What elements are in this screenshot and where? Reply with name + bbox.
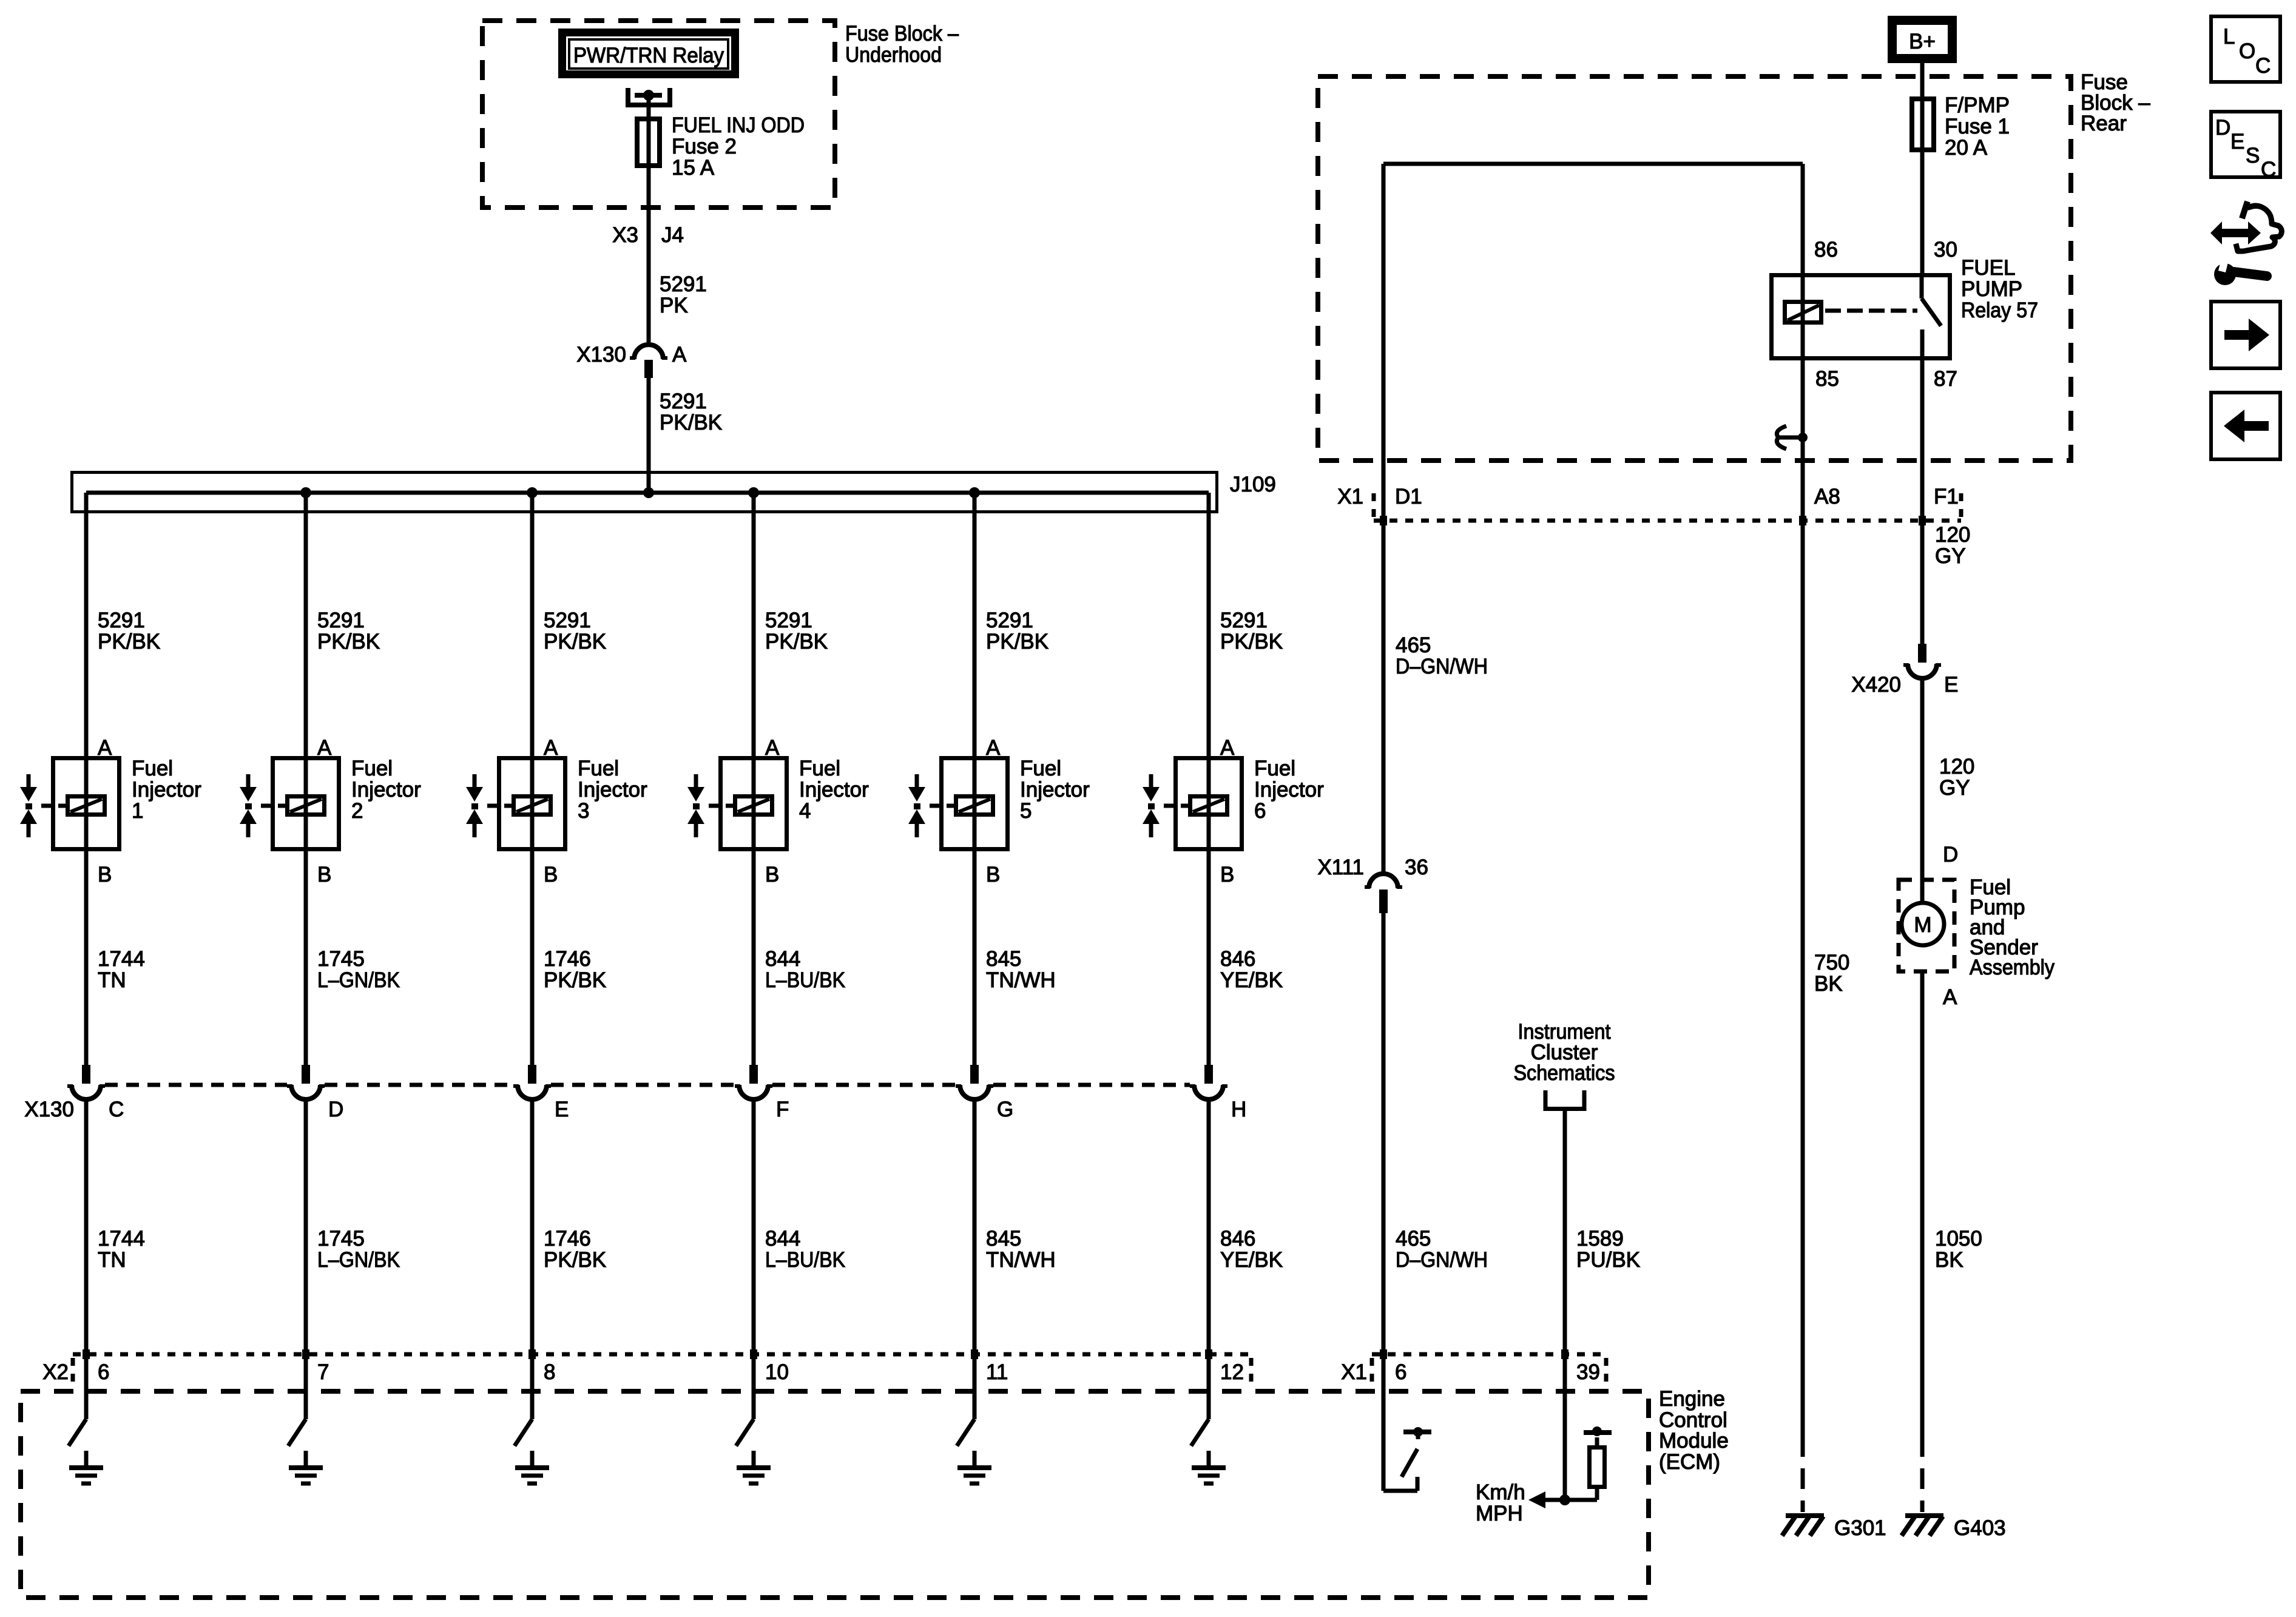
ECM driver switch pin 7 [288,1419,306,1446]
label connector pin H [1231,1098,1246,1121]
label wire 846 YE/BK upper [1220,947,1283,992]
label ECM pin 12 [1220,1360,1244,1384]
svg-text:12: 12 [1220,1360,1244,1384]
svg-text:A8: A8 [1814,485,1840,508]
wire 5291 PK/BK branch to injector 1 [84,493,89,1065]
wire 120 GY to fuel pump pin D [1920,678,1925,903]
splice pack J109 bus [72,473,1217,512]
label connector X130 cavity A [576,343,687,366]
label pin A injector 3 [544,736,558,760]
svg-text:PK/BK: PK/BK [317,630,380,653]
svg-text:Underhood: Underhood [845,43,942,67]
label Fuel Injector 4 [799,757,869,823]
svg-text:1746: 1746 [544,1227,591,1251]
label wire 5291 PK/BK branch 3 [544,609,606,653]
svg-text:846: 846 [1220,947,1255,971]
engine control module enclosure [21,1391,1649,1598]
icon hand with wrench and double arrow [2210,201,2281,285]
relay 57 coil [1785,302,1822,323]
svg-text:5291: 5291 [317,609,365,632]
svg-text:C: C [2261,158,2276,181]
svg-text:Fuel: Fuel [1254,757,1295,780]
svg-text:PK/BK: PK/BK [98,630,160,653]
label connector X2 [42,1360,69,1384]
label wire 1744 TN upper [98,947,145,992]
svg-text:120: 120 [1935,523,1970,547]
svg-text:PK/BK: PK/BK [986,630,1048,653]
label wire 845 TN/WH upper [986,947,1056,992]
svg-text:H: H [1231,1098,1246,1121]
svg-text:J109: J109 [1230,473,1276,496]
svg-text:1050: 1050 [1935,1227,1982,1251]
label pin A injector 4 [765,736,780,760]
fuse block underhood enclosure [482,21,835,208]
label Fuel Pump and Sender Assembly [1970,876,2055,979]
svg-text:5291: 5291 [765,609,812,632]
svg-text:Fuse Block –: Fuse Block – [845,22,959,46]
svg-text:TN/WH: TN/WH [986,968,1056,992]
svg-text:F: F [776,1098,789,1121]
ECM driver switch pin 12 [1191,1419,1209,1446]
wire 1589 PU/BK from instrument cluster to pin 39 [1561,1111,1568,1500]
svg-text:PK/BK: PK/BK [1220,630,1283,653]
fuel injector 2 [240,758,339,849]
label pin B injector 3 [544,863,558,886]
relay 57 switch contact [1922,273,1941,360]
wire 5291 PK/BK branch to injector 4 [752,493,756,1065]
svg-text:J4: J4 [661,223,684,247]
label wire 5291 PK/BK branch 6 [1220,609,1283,653]
svg-text:PK: PK [660,294,688,317]
svg-text:C: C [109,1098,124,1121]
label wire 1745 L&#8211;GN/BK upper [317,947,400,992]
svg-text:X1: X1 [1341,1360,1367,1384]
svg-text:30: 30 [1934,238,1957,262]
label pin B injector 2 [317,863,331,886]
wire 465 D-GN/WH from ECM up and over to relay 57 pin 86 [1380,164,1803,874]
svg-text:6: 6 [98,1360,109,1384]
label ECM pin 11 [986,1360,1008,1384]
svg-text:FUEL: FUEL [1961,256,2015,280]
relay 57 actuation dashed link [1825,309,1917,313]
label Fuel Injector 1 [132,757,201,823]
svg-text:36: 36 [1405,856,1428,879]
svg-text:(ECM): (ECM) [1659,1450,1720,1474]
svg-text:F/PMP: F/PMP [1945,93,2010,117]
junction dots on J109 [300,487,980,498]
svg-text:465: 465 [1396,633,1431,657]
label Km/h MPH [1476,1480,1525,1525]
svg-text:FUEL INJ ODD: FUEL INJ ODD [672,113,805,137]
label connector X1 at ECM [1341,1360,1367,1384]
wire 5291 PK/BK to splice J109 [647,378,651,493]
svg-text:L–GN/BK: L–GN/BK [317,968,400,992]
connector X130 pin A [630,345,667,378]
fuel injector 5 [908,758,1008,849]
label fuse block pins D1 A8 F1 [1395,485,1959,508]
svg-text:1745: 1745 [317,947,365,971]
label wire 465 D-GN/WH lower [1396,1227,1488,1272]
connector X1 dotted row at ECM [1372,1354,1606,1392]
svg-text:Fuel: Fuel [132,757,173,780]
connector X130 pin C [67,1065,105,1099]
fuel injector 6 [1143,758,1242,849]
connector X130 harness dashed line [105,1083,1190,1087]
svg-text:YE/BK: YE/BK [1220,968,1283,992]
label wire 846 YE/BK lower [1220,1227,1283,1272]
label fuse 2 [672,113,805,180]
label pin B injector 6 [1220,863,1234,886]
ground (ECM internal) for injector 5 [957,1451,991,1484]
svg-text:7: 7 [317,1360,329,1384]
svg-text:5291: 5291 [660,272,707,296]
svg-text:G403: G403 [1954,1516,2006,1540]
label ECM pin 39 (X1) [1576,1360,1600,1384]
svg-text:Schematics: Schematics [1514,1061,1615,1085]
label wire 5291 PK/BK branch 1 [98,609,160,653]
label ECM pin 6 (X1) [1395,1360,1406,1384]
svg-text:D–GN/WH: D–GN/WH [1396,655,1488,678]
fuse FUEL INJ ODD Fuse 2 15 A [637,119,660,166]
wire B+ to fuse 1 to relay 57 pin 30 [1920,63,1925,273]
svg-text:B: B [98,863,112,886]
svg-text:X130: X130 [24,1098,74,1121]
ECM input switch on pin X1-6 [1383,1427,1431,1491]
wire 1745 L&#8211;GN/BK to ECM pin 7 [302,1099,309,1419]
label connector pin E [555,1098,569,1121]
svg-text:BK: BK [1935,1248,1963,1272]
connector X2 dotted row at ECM [73,1354,1251,1388]
relay PWR/TRN (shown in fuse block) [562,33,735,75]
svg-text:L–BU/BK: L–BU/BK [765,1248,845,1272]
label ECM pin 6 [98,1360,109,1384]
connector X130 pin G [956,1065,993,1099]
svg-text:X130: X130 [576,343,626,366]
label fuse 1 [1945,93,2010,160]
svg-text:20 A: 20 A [1945,136,1988,160]
svg-text:TN/WH: TN/WH [986,1248,1056,1272]
connector X130 pin E [513,1065,551,1099]
label fuel pump pin A [1943,985,1957,1009]
svg-text:B: B [1220,863,1234,886]
label wire 1050 BK [1935,1227,1982,1272]
svg-text:Km/h: Km/h [1476,1480,1525,1504]
svg-text:YE/BK: YE/BK [1220,1248,1283,1272]
label connector pin D [328,1098,343,1121]
label Fuel Injector 5 [1020,757,1090,823]
svg-text:E: E [555,1098,569,1121]
svg-text:PWR/TRN Relay: PWR/TRN Relay [573,44,724,67]
connector X1 dotted row at fuse block rear [1374,487,1961,521]
label connector X1 at fuse block [1337,485,1363,508]
wire 750 BK dashed lead to G301 [1801,1436,1805,1512]
label wire 1589 PU/BK [1576,1227,1640,1272]
wire 845 TN/WH to ECM pin 11 [971,1099,978,1419]
svg-text:E: E [2230,130,2244,154]
label wire 844 L&#8211;BU/BK upper [765,947,845,992]
svg-text:TN: TN [98,1248,126,1272]
svg-text:E: E [1944,673,1958,697]
svg-text:GY: GY [1939,776,1970,800]
svg-text:5: 5 [1020,799,1032,823]
svg-text:L–GN/BK: L–GN/BK [317,1248,400,1272]
label connector X111 cavity 36 [1317,856,1428,879]
svg-text:39: 39 [1576,1360,1600,1384]
ground (ECM internal) for injector 6 [1192,1451,1226,1484]
label Engine Control Module (ECM) [1659,1387,1729,1474]
svg-text:2: 2 [351,799,363,823]
ground (ECM internal) for injector 3 [515,1451,549,1484]
svg-text:8: 8 [544,1360,555,1384]
label relay pins 86 30 85 87 [1814,238,1957,391]
svg-text:845: 845 [986,1227,1021,1251]
svg-text:Injector: Injector [132,778,201,802]
svg-text:844: 844 [765,947,800,971]
ECM driver switch pin 6 [69,1419,86,1446]
ECM speed signal node on pin 39 [1545,1494,1597,1505]
svg-text:X420: X420 [1851,673,1901,697]
svg-text:Injector: Injector [1020,778,1090,802]
svg-text:X1: X1 [1337,485,1363,508]
label pin B injector 5 [986,863,1000,886]
svg-text:PK/BK: PK/BK [765,630,828,653]
label G403 [1954,1516,2006,1540]
svg-text:Fuel: Fuel [799,757,840,780]
svg-text:1589: 1589 [1576,1227,1624,1251]
svg-text:D: D [328,1098,343,1121]
fuel injector 4 [687,758,787,849]
svg-text:120: 120 [1939,755,1974,778]
svg-text:PK/BK: PK/BK [544,968,606,992]
svg-text:Fuse 1: Fuse 1 [1945,115,2010,138]
icon button back arrow [2211,393,2280,459]
label pin A injector 5 [986,736,1001,760]
connector X130 pin H [1190,1065,1227,1099]
case ground tab on pin 85 wire [1777,426,1808,449]
svg-text:B: B [765,863,779,886]
label connector X130 [24,1098,74,1121]
ground G403 [1902,1516,1943,1536]
svg-text:PUMP: PUMP [1961,277,2022,301]
label wire 120 GY lower [1939,755,1974,800]
connector X130 pin D [287,1065,325,1099]
label connector X420 cavity E [1851,673,1958,697]
svg-text:GY: GY [1935,544,1966,568]
svg-text:6: 6 [1395,1360,1406,1384]
svg-text:O: O [2239,39,2255,63]
label Instrument Cluster Schematics [1514,1020,1615,1085]
label pin A injector 6 [1220,736,1235,760]
label X3 J4 fuse block terminals [612,223,684,247]
label ECM pin 7 [317,1360,329,1384]
svg-text:X2: X2 [42,1360,69,1384]
svg-text:5291: 5291 [98,609,145,632]
svg-text:1745: 1745 [317,1227,365,1251]
label wire 120 GY upper [1935,523,1970,568]
svg-text:Fuel: Fuel [578,757,619,780]
label wire 1746 PK/BK upper [544,947,606,992]
svg-text:5291: 5291 [986,609,1033,632]
wire 1744 TN to ECM pin 6 [83,1099,90,1419]
svg-text:1746: 1746 [544,947,591,971]
svg-text:X3: X3 [612,223,638,247]
label wire 844 L&#8211;BU/BK lower [765,1227,845,1272]
label wire 845 TN/WH lower [986,1227,1056,1272]
svg-text:845: 845 [986,947,1021,971]
wire 1746 PK/BK to ECM pin 8 [528,1099,536,1419]
label G301 [1834,1516,1886,1540]
resistor (ECM pull-up) at pin 39 [1584,1426,1612,1500]
label fuel pump pin D [1943,843,1958,866]
svg-text:B+: B+ [1909,30,1936,53]
svg-text:D: D [1943,843,1958,866]
battery feed B+ [1893,21,1953,59]
svg-text:87: 87 [1934,367,1957,391]
svg-text:TN: TN [98,968,126,992]
wire 846 YE/BK to ECM pin 12 [1205,1099,1212,1419]
label connector pin C [109,1098,124,1121]
label wire 5291 PK/BK branch 5 [986,609,1048,653]
label pin A injector 2 [317,736,332,760]
label FUEL PUMP Relay 57 [1961,256,2038,322]
label wire 5291 PK [660,272,707,317]
svg-text:3: 3 [578,799,589,823]
wire 465 D-GN/WH to ECM pin X1-6 [1380,913,1387,1491]
fuel pump and sender assembly enclosure [1899,880,1954,971]
label Fuel Injector 6 [1254,757,1324,823]
label wire 5291 PK/BK [660,390,722,434]
svg-text:846: 846 [1220,1227,1255,1251]
svg-text:465: 465 [1396,1227,1431,1251]
ground (ECM internal) for injector 4 [737,1451,771,1484]
label wire 750 BK [1814,951,1849,996]
label pin B injector 1 [98,863,112,886]
connector X130 pin F [735,1065,772,1099]
svg-text:Assembly: Assembly [1970,956,2055,979]
svg-text:A: A [1943,985,1957,1009]
svg-text:L–BU/BK: L–BU/BK [765,968,845,992]
svg-text:C: C [2255,54,2271,78]
svg-text:D: D [2215,116,2230,140]
svg-text:L: L [2223,25,2235,49]
wire relay 57 pin 87 (120 GY) down to fuel pump [1919,329,1926,644]
svg-text:Fuse 2: Fuse 2 [672,135,737,158]
ECM driver switch pin 8 [515,1419,532,1446]
svg-text:11: 11 [986,1360,1008,1384]
ground (ECM internal) for injector 2 [289,1451,323,1484]
svg-text:4: 4 [799,799,811,823]
svg-text:1744: 1744 [98,1227,145,1251]
svg-text:PU/BK: PU/BK [1576,1248,1640,1272]
svg-text:Injector: Injector [1254,778,1324,802]
svg-text:A: A [672,343,687,366]
label wire 5291 PK/BK branch 4 [765,609,828,653]
label connector pin G [997,1098,1013,1121]
label wire 1745 L&#8211;GN/BK lower [317,1227,400,1272]
label Fuse Block - Rear [2081,70,2150,135]
icon button LOC [2211,16,2280,82]
svg-text:750: 750 [1814,951,1849,974]
ground (ECM internal) for injector 1 [69,1451,103,1484]
wire 5291 PK/BK branch to injector 5 [973,493,977,1065]
connector X420 pin E [1903,644,1941,678]
label wire 1746 PK/BK lower [544,1227,606,1272]
label pin A injector 1 [98,736,112,760]
arrow to Km/h MPH output [1528,1491,1545,1508]
svg-text:Injector: Injector [351,778,421,802]
wire 5291 PK/BK branch to injector 2 [304,493,308,1065]
svg-text:85: 85 [1815,367,1839,391]
wire relay coil pin 86 to pin 85 and down to G301 [1799,164,1806,1436]
svg-text:6: 6 [1254,799,1266,823]
relay contact bracket feed [628,88,670,105]
svg-text:Injector: Injector [799,778,869,802]
svg-text:F1: F1 [1934,485,1959,508]
label Fuse Block - Underhood [845,22,959,67]
svg-text:Injector: Injector [578,778,647,802]
label ECM pin 10 [765,1360,789,1384]
svg-text:M: M [1914,913,1931,937]
label ECM pin 8 [544,1360,555,1384]
svg-text:PK/BK: PK/BK [660,411,722,434]
svg-text:S: S [2246,144,2260,167]
fuse F/PMP Fuse 1 20 A [1912,99,1934,150]
wire 844 L&#8211;BU/BK to ECM pin 10 [750,1099,757,1419]
svg-text:PK/BK: PK/BK [544,1248,606,1272]
instrument cluster off-page bracket [1545,1090,1584,1109]
svg-text:Module: Module [1659,1429,1729,1453]
icon button DESC [2211,112,2280,181]
svg-text:Rear: Rear [2081,112,2127,135]
svg-text:D–GN/WH: D–GN/WH [1396,1248,1488,1272]
wire from PWR/TRN relay through fuse 2 to connector X130 A [647,95,651,342]
ground G301 [1782,1516,1824,1536]
label connector pin F [776,1098,789,1121]
svg-text:BK: BK [1814,972,1843,996]
svg-text:5291: 5291 [544,609,591,632]
label Fuel Injector 2 [351,757,421,823]
label wire 1744 TN lower [98,1227,145,1272]
svg-text:86: 86 [1814,238,1838,262]
svg-text:Relay 57: Relay 57 [1961,299,2038,322]
fuse block rear enclosure [1318,76,2071,461]
svg-text:B: B [317,863,331,886]
svg-text:10: 10 [765,1360,789,1384]
svg-text:D1: D1 [1395,485,1422,508]
svg-text:G301: G301 [1834,1516,1886,1540]
label wire 5291 PK/BK branch 2 [317,609,380,653]
svg-text:1: 1 [132,799,143,823]
wire 5291 PK/BK branch to injector 6 [1207,493,1211,1065]
svg-text:Fuel: Fuel [1020,757,1061,780]
svg-text:Fuel: Fuel [351,757,393,780]
svg-text:844: 844 [765,1227,800,1251]
connector X111 pin 36 [1365,874,1402,913]
relay FUEL PUMP Relay 57 [1772,275,1950,359]
label pin B injector 4 [765,863,779,886]
svg-text:B: B [986,863,1000,886]
svg-text:5291: 5291 [1220,609,1268,632]
svg-text:MPH: MPH [1476,1502,1523,1525]
ECM driver switch pin 10 [736,1419,754,1446]
ECM driver switch pin 11 [957,1419,974,1446]
svg-text:B: B [544,863,558,886]
label wire 465 D-GN/WH upper [1396,633,1488,678]
fuel injector 3 [466,758,566,849]
svg-text:Engine: Engine [1659,1387,1725,1411]
label J109 [1230,473,1276,496]
svg-text:G: G [997,1098,1013,1121]
